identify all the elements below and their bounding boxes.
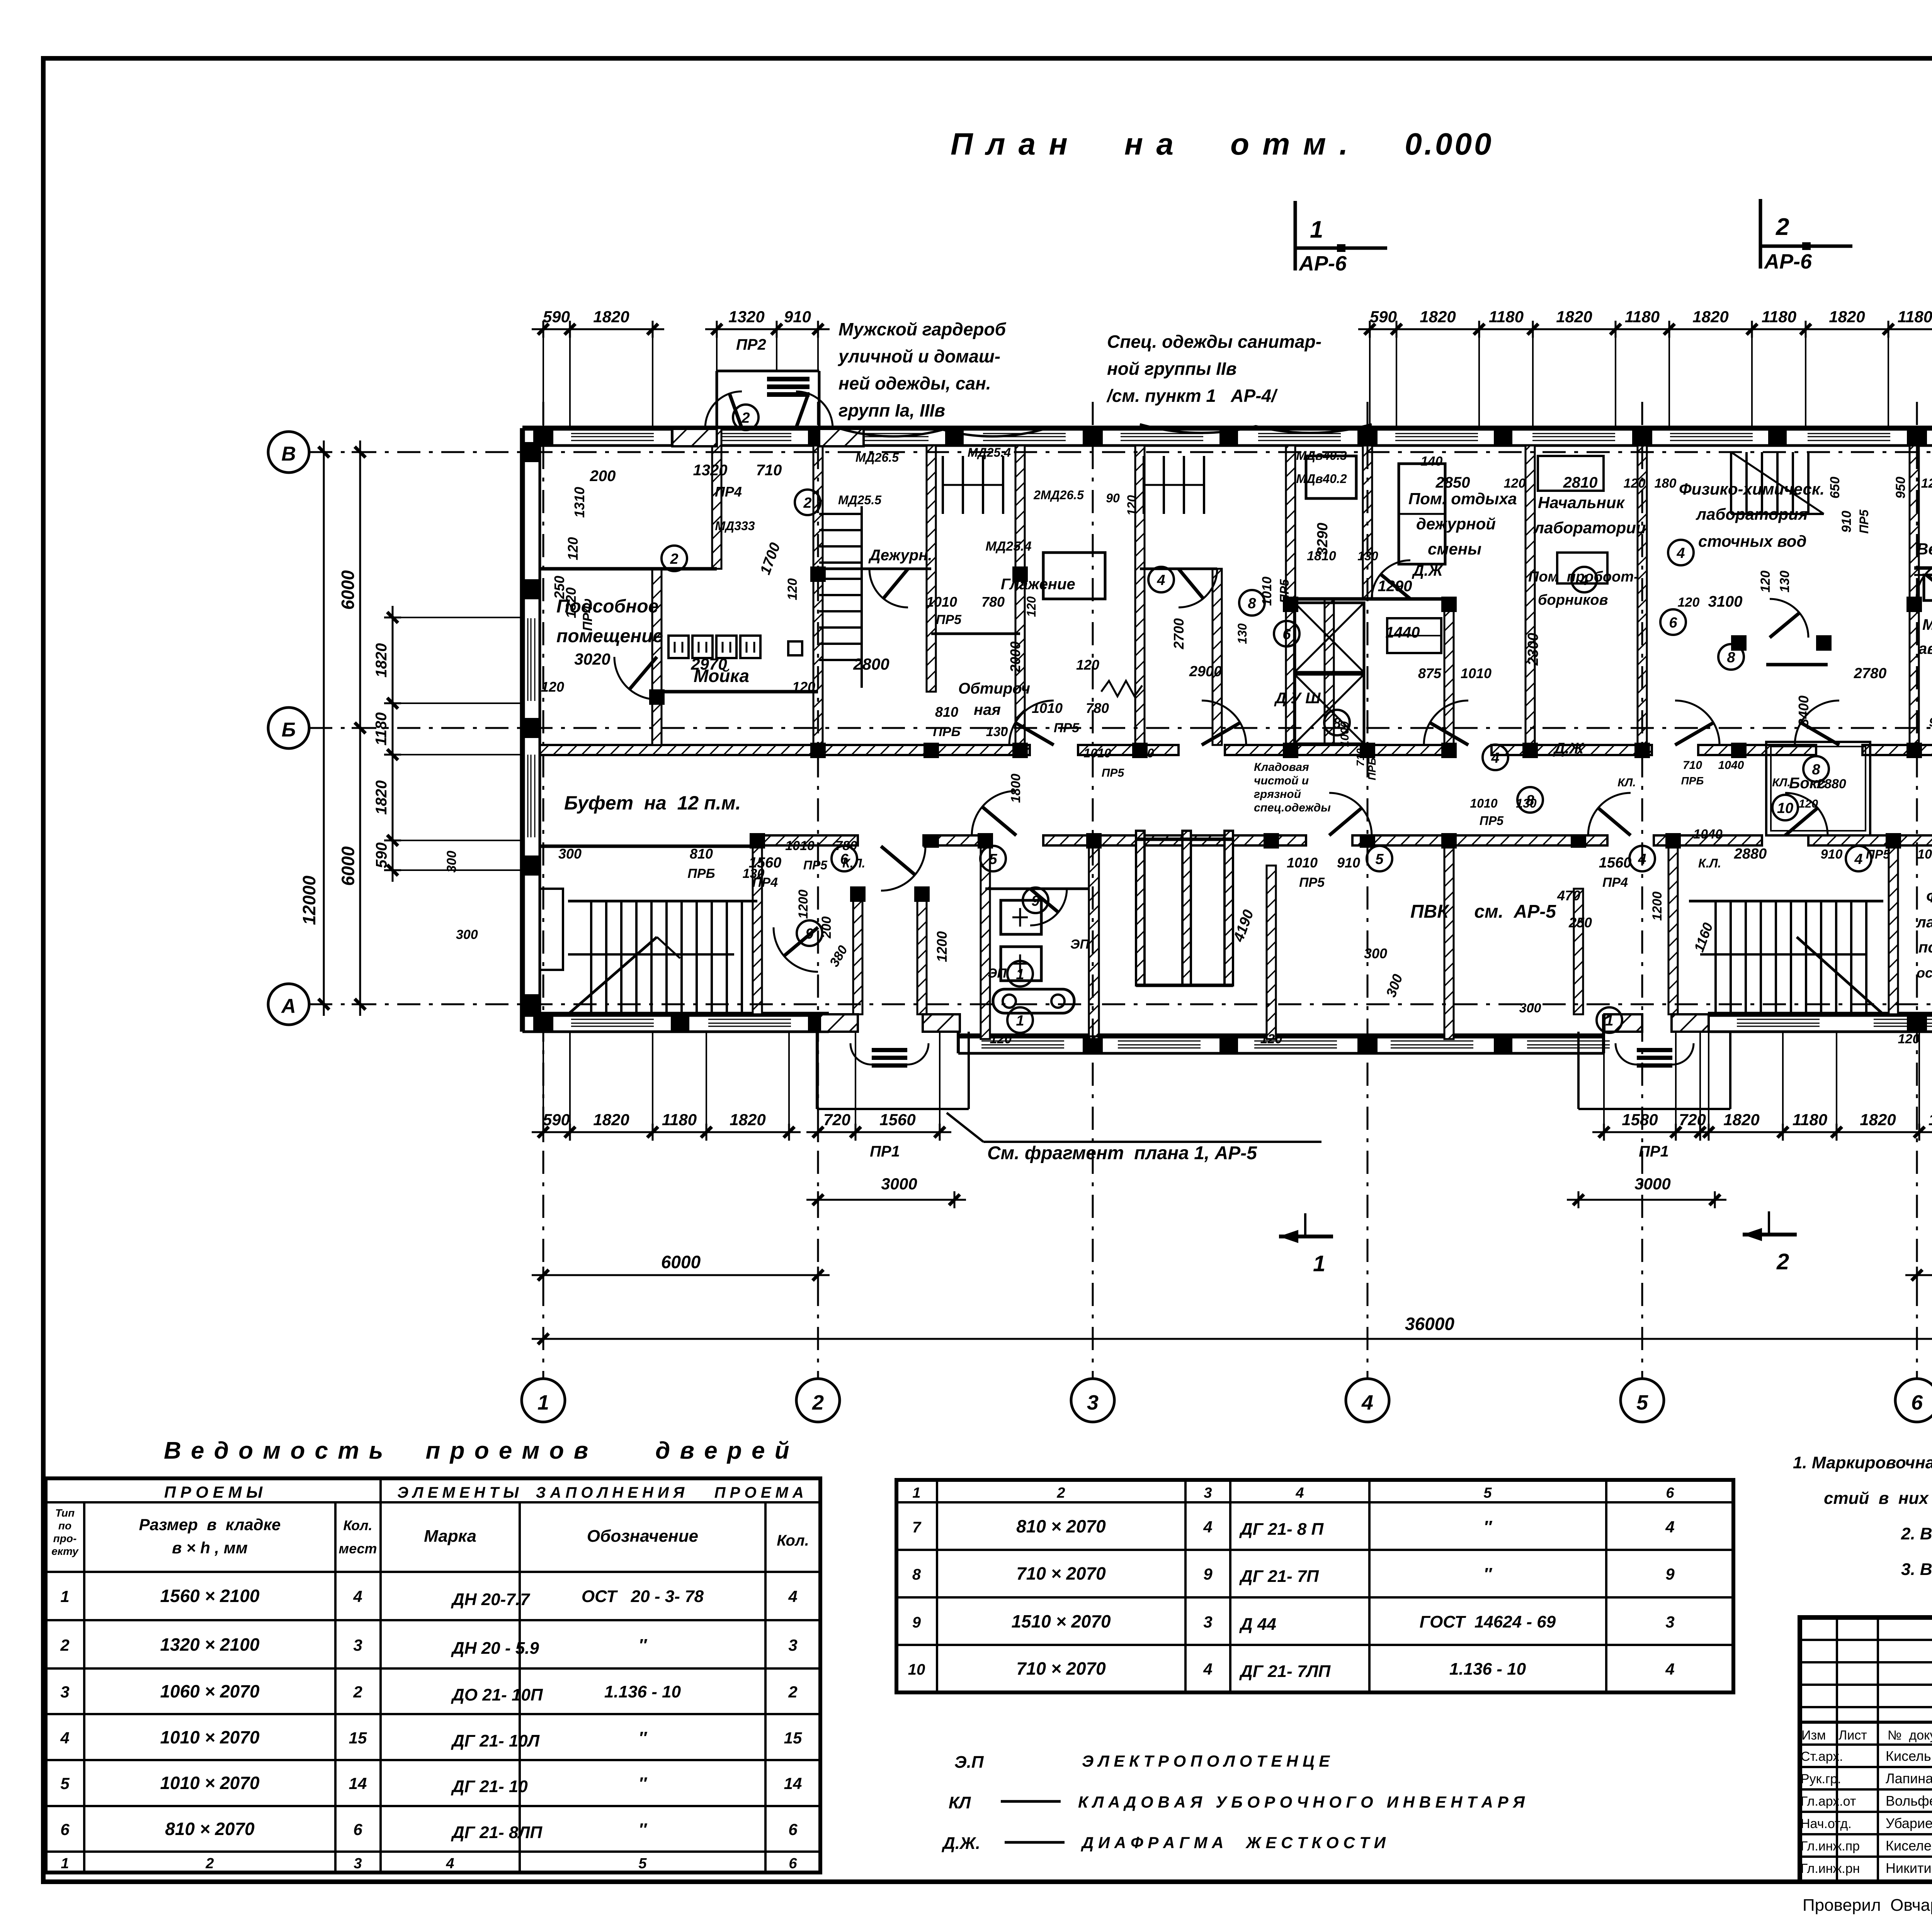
door schedule table 2	[896, 1480, 1733, 1692]
left staircase	[568, 900, 757, 903]
svg-text:дежурной: дежурной	[1416, 515, 1496, 533]
svg-text:8: 8	[1248, 595, 1256, 612]
svg-text:ПР5: ПР5	[1102, 767, 1125, 779]
svg-text:120: 120	[1799, 798, 1818, 810]
svg-text:К.Л.: К.Л.	[1698, 856, 1721, 870]
corridor walls	[540, 745, 1030, 755]
svg-text:ПРБ: ПРБ	[1366, 758, 1378, 781]
svg-text:4: 4	[1665, 1518, 1674, 1536]
svg-text:ЭП: ЭП	[1070, 937, 1090, 952]
svg-text:1820: 1820	[373, 643, 390, 678]
svg-text:КЛ.: КЛ.	[1772, 776, 1790, 789]
upper small stair (axis 2)	[819, 513, 862, 515]
svg-text:См. фрагмент плана 1, АР-5: См. фрагмент плана 1, АР-5	[987, 1143, 1257, 1163]
svg-text:910: 910	[1133, 746, 1154, 760]
svg-text:Э Л Е К Т Р О П О Л О Т Е Н Ц: Э Л Е К Т Р О П О Л О Т Е Н Ц Е	[1082, 1752, 1330, 1770]
svg-text:36000: 36000	[1405, 1314, 1454, 1334]
svg-text:2: 2	[60, 1636, 69, 1654]
svg-text:120: 120	[565, 537, 581, 560]
svg-text:130: 130	[986, 724, 1008, 739]
svg-text:120: 120	[1260, 1032, 1282, 1046]
svg-text:стий в них см. на листе: стий в них см. на листе ДР-9.	[1824, 1489, 1932, 1508]
svg-text:ПР5: ПР5	[1299, 875, 1325, 890]
svg-text:1010: 1010	[1470, 796, 1497, 810]
misc furniture	[1538, 456, 1604, 491]
svg-text:осадков сточ-: осадков сточ-	[1917, 965, 1932, 981]
svg-text:ПР1: ПР1	[1639, 1143, 1669, 1160]
svg-text:590: 590	[543, 1111, 570, 1129]
svg-text:Начальник: Начальник	[1538, 493, 1625, 512]
svg-text:90: 90	[1106, 491, 1120, 505]
svg-text:1820: 1820	[1420, 308, 1456, 326]
svg-text:ПР4: ПР4	[1602, 875, 1628, 890]
svg-text:1820: 1820	[593, 308, 629, 326]
svg-text:15: 15	[784, 1729, 802, 1747]
svg-text:910: 910	[1337, 855, 1360, 871]
svg-text:120: 120	[1624, 476, 1646, 491]
svg-text:910: 910	[784, 308, 811, 326]
exterior wall windows top	[571, 433, 654, 434]
svg-text:ПР1: ПР1	[870, 1143, 900, 1160]
svg-text:1820: 1820	[1860, 1111, 1896, 1129]
svg-text:3100: 3100	[1708, 593, 1743, 610]
svg-text:130: 130	[1777, 571, 1792, 593]
svg-text:АР-6: АР-6	[1298, 252, 1347, 275]
door swing arcs	[1015, 723, 1054, 745]
svg-text:5: 5	[1375, 851, 1384, 867]
svg-text:4: 4	[1665, 1660, 1674, 1678]
section cut 2 bottom	[1743, 1233, 1797, 1236]
svg-text:6: 6	[1282, 626, 1291, 643]
svg-text:590: 590	[373, 842, 390, 868]
svg-text:120: 120	[541, 679, 564, 695]
svg-text:Обозначение: Обозначение	[587, 1527, 698, 1546]
svg-text:2: 2	[1776, 214, 1789, 240]
svg-text:6: 6	[353, 1820, 362, 1838]
svg-text:МДв40.3: МДв40.3	[1296, 449, 1347, 463]
svg-text:3290: 3290	[1315, 523, 1331, 556]
svg-text:9: 9	[912, 1614, 921, 1631]
svg-text:чистой и: чистой и	[1254, 774, 1309, 787]
svg-text:Д.Ж: Д.Ж	[1553, 740, 1584, 757]
upper stair (axis 5-6 room)	[1730, 452, 1732, 514]
svg-text:8: 8	[1333, 715, 1341, 731]
svg-text:ЭП: ЭП	[988, 966, 1007, 981]
svg-text:300: 300	[558, 846, 582, 862]
interior partitions lower band	[753, 835, 762, 1014]
section mark 1/AP-6	[1294, 201, 1297, 270]
svg-text:Рук.гр.: Рук.гр.	[1801, 1772, 1841, 1786]
svg-text:2800: 2800	[853, 655, 889, 673]
svg-text:1320: 1320	[563, 587, 579, 618]
svg-text:120: 120	[1898, 1032, 1920, 1046]
svg-text:МД25.5: МД25.5	[838, 493, 882, 507]
svg-text:Гл.арх.от: Гл.арх.от	[1801, 1794, 1856, 1809]
svg-text:12000: 12000	[299, 876, 319, 925]
svg-text:1820: 1820	[1723, 1111, 1759, 1129]
svg-text:780: 780	[1086, 700, 1109, 716]
section mark 2/AP-6	[1759, 199, 1762, 269]
svg-text:Размер в кладке: Размер в кладке	[139, 1515, 281, 1534]
svg-text:2700: 2700	[1171, 618, 1187, 650]
svg-text:ПР4: ПР4	[580, 605, 595, 631]
bottom dimension chain right	[1689, 1131, 1932, 1133]
svg-text:910: 910	[1821, 847, 1843, 862]
svg-text:710: 710	[1354, 748, 1366, 766]
svg-text:6: 6	[840, 851, 849, 867]
6000 spans bottom	[532, 1274, 830, 1276]
svg-text:1180: 1180	[1898, 308, 1932, 326]
svg-text:1: 1	[61, 1855, 69, 1872]
top dimension chain right	[1358, 328, 1932, 330]
corridor door blobs extra	[923, 835, 939, 848]
svg-text:6: 6	[1911, 1391, 1923, 1414]
svg-text:2780: 2780	[1854, 665, 1887, 682]
svg-text:2880: 2880	[1816, 777, 1846, 791]
svg-text:1010: 1010	[1917, 847, 1932, 862]
svg-text:1580: 1580	[1622, 1111, 1658, 1129]
svg-text:1560 × 2100: 1560 × 2100	[160, 1586, 260, 1606]
svg-text:6: 6	[60, 1820, 70, 1838]
svg-text:130: 130	[1357, 549, 1378, 563]
svg-text:1180: 1180	[1489, 308, 1524, 326]
svg-text:МДв40.2: МДв40.2	[1296, 472, 1347, 486]
svg-text:710: 710	[1683, 759, 1702, 772]
svg-text:ной группы IIв: ной группы IIв	[1107, 359, 1236, 379]
svg-text:4: 4	[60, 1729, 69, 1747]
svg-text:ПР4: ПР4	[715, 484, 742, 500]
svg-text:5: 5	[60, 1774, 70, 1793]
svg-text:10: 10	[908, 1661, 925, 1678]
svg-text:590: 590	[1370, 308, 1397, 326]
svg-text:9: 9	[805, 926, 813, 942]
svg-text:3: 3	[1204, 1485, 1212, 1501]
svg-text:3000: 3000	[1634, 1175, 1670, 1193]
svg-text:5: 5	[989, 851, 997, 867]
svg-text:1180: 1180	[1793, 1111, 1827, 1129]
hatched piers at top vestibule	[672, 429, 717, 446]
svg-text:ДГ 21- 8ЛП: ДГ 21- 8ЛП	[451, 1823, 543, 1842]
svg-text:1820: 1820	[593, 1111, 629, 1129]
svg-text:Спец. одежды санитар-: Спец. одежды санитар-	[1107, 332, 1321, 352]
svg-text:9: 9	[1031, 893, 1039, 909]
svg-text:710 × 2070: 710 × 2070	[1016, 1563, 1106, 1583]
svg-text:6: 6	[788, 1820, 798, 1838]
svg-text:2: 2	[353, 1683, 362, 1701]
svg-text:Кол.: Кол.	[343, 1517, 372, 1533]
svg-text:″: ″	[638, 1774, 647, 1793]
svg-text:1060 × 2070: 1060 × 2070	[160, 1681, 260, 1701]
svg-text:сточных вод: сточных вод	[1698, 532, 1806, 550]
svg-text:1800: 1800	[1009, 774, 1023, 803]
svg-text:ДГ 21- 7П: ДГ 21- 7П	[1239, 1567, 1319, 1586]
svg-text:1320 × 2100: 1320 × 2100	[160, 1634, 260, 1655]
svg-text:Д И А Ф Р А Г М А Ж Е С Т: Д И А Ф Р А Г М А Ж Е С Т К О С Т И	[1081, 1833, 1386, 1852]
svg-text:470: 470	[1557, 888, 1580, 903]
svg-text:2880: 2880	[1734, 846, 1767, 862]
svg-text:Лапина: Лапина	[1886, 1770, 1932, 1786]
svg-text:1. Маркировочная схема сборн: 1. Маркировочная схема сборных и стеклоб…	[1793, 1453, 1932, 1472]
svg-text:720: 720	[823, 1111, 850, 1129]
svg-text:2900: 2900	[1189, 663, 1222, 680]
svg-text:3: 3	[1203, 1613, 1212, 1631]
svg-text:120: 120	[1678, 595, 1700, 610]
svg-text:120: 120	[1504, 476, 1526, 491]
svg-text:ПРБ: ПРБ	[933, 724, 960, 739]
axis grid lines	[543, 402, 544, 1379]
top entry vestibule (porch above axis 2)	[716, 371, 718, 428]
svg-text:в × h , мм: в × h , мм	[172, 1539, 248, 1557]
svg-text:810: 810	[690, 846, 713, 862]
svg-text:3: 3	[1087, 1391, 1099, 1414]
svg-text:650: 650	[1828, 477, 1842, 499]
svg-text:1010 × 2070: 1010 × 2070	[160, 1727, 260, 1747]
svg-text:1290: 1290	[1378, 578, 1412, 595]
circled door numbers	[832, 846, 857, 871]
svg-text:Гл.инж.рн: Гл.инж.рн	[1801, 1861, 1860, 1876]
axis 3 hatched wall	[1089, 835, 1099, 1036]
svg-text:МД333: МД333	[715, 519, 755, 533]
svg-text:/см. пункт 1 АР-4/: /см. пункт 1 АР-4/	[1106, 386, 1278, 406]
svg-text:3: 3	[60, 1683, 69, 1701]
svg-text:6: 6	[789, 1855, 797, 1872]
svg-text:Киселева: Киселева	[1886, 1838, 1932, 1854]
svg-text:1320: 1320	[728, 308, 764, 326]
svg-text:ПР5: ПР5	[936, 612, 962, 627]
svg-text:ПР2: ПР2	[736, 336, 766, 353]
svg-text:Проверил Овчаренко: Проверил Овчаренко	[1803, 1896, 1932, 1915]
svg-text:120: 120	[990, 1032, 1012, 1046]
svg-text:780: 780	[981, 594, 1005, 610]
svg-text:1010: 1010	[926, 594, 957, 610]
svg-text:грязной: грязной	[1254, 788, 1301, 801]
svg-text:4: 4	[1295, 1485, 1304, 1501]
svg-text:8: 8	[912, 1566, 921, 1583]
svg-text:Физ. хим.: Физ. хим.	[1926, 889, 1932, 906]
svg-text:ПР5: ПР5	[1480, 814, 1504, 828]
svg-text:1: 1	[1016, 966, 1024, 983]
svg-text:Дежурн.: Дежурн.	[868, 547, 932, 564]
svg-text:по: по	[58, 1520, 71, 1532]
svg-text:Убариев: Убариев	[1886, 1815, 1932, 1831]
svg-text:2: 2	[741, 410, 750, 426]
svg-text:ОСТ 20 - 3- 78: ОСТ 20 - 3- 78	[582, 1587, 704, 1606]
svg-text:ДГ 21- 8 П: ДГ 21- 8 П	[1239, 1520, 1324, 1539]
36000 span	[532, 1338, 1932, 1340]
svg-text:590: 590	[543, 308, 570, 326]
svg-text:2: 2	[205, 1855, 214, 1872]
svg-text:про-: про-	[53, 1532, 77, 1544]
junction blobs	[810, 743, 826, 758]
bottom porch chain right	[1592, 1131, 1720, 1133]
svg-text:2810: 2810	[1563, 474, 1598, 491]
svg-text:МД25.4: МД25.4	[968, 446, 1011, 459]
svg-text:Э.П: Э.П	[954, 1753, 984, 1772]
svg-text:1: 1	[1016, 1013, 1024, 1029]
svg-text:1440: 1440	[1386, 624, 1420, 641]
svg-text:1820: 1820	[730, 1111, 765, 1129]
svg-text:4: 4	[1854, 851, 1862, 867]
svg-text:140: 140	[1421, 454, 1443, 469]
svg-text:ПР5: ПР5	[1857, 509, 1871, 534]
wardrobe rows (axis 2-3)	[942, 456, 944, 514]
svg-text:1200: 1200	[1650, 891, 1665, 921]
svg-text:120: 120	[1758, 571, 1773, 593]
svg-text:1040: 1040	[1693, 827, 1723, 842]
svg-text:Вольфензон: Вольфензон	[1886, 1793, 1932, 1809]
svg-text:2: 2	[812, 1391, 824, 1414]
svg-text:10: 10	[1777, 800, 1793, 816]
right staircase	[1689, 900, 1883, 903]
svg-text:300: 300	[456, 927, 478, 942]
svg-text:″: ″	[1483, 1517, 1492, 1536]
svg-text:4: 4	[1156, 572, 1165, 588]
svg-text:4: 4	[446, 1855, 454, 1872]
svg-text:спец.одежды: спец.одежды	[1254, 801, 1331, 814]
svg-text:лаборатория: лаборатория	[1696, 505, 1808, 523]
svg-text:2: 2	[1776, 1249, 1789, 1274]
svg-text:Э Л Е М Е Н Т Ы З А П О Л Н: Э Л Е М Е Н Т Ы З А П О Л Н Е Н И Я П Р …	[397, 1484, 804, 1501]
svg-text:Никитин: Никитин	[1886, 1860, 1932, 1876]
svg-text:Нач.отд.: Нач.отд.	[1801, 1816, 1852, 1831]
svg-text:Изм: Изм	[1801, 1728, 1826, 1743]
svg-text:1560: 1560	[1599, 855, 1632, 871]
svg-text:14: 14	[349, 1774, 367, 1793]
bench rects upper rooms	[1399, 464, 1445, 564]
svg-text:1560: 1560	[879, 1111, 915, 1129]
svg-text:130: 130	[743, 866, 765, 881]
interior partitions upper band	[652, 569, 662, 745]
svg-text:300: 300	[1364, 946, 1387, 961]
svg-text:300: 300	[1519, 1001, 1541, 1015]
svg-text:4: 4	[788, 1587, 797, 1605]
svg-text:1820: 1820	[1692, 308, 1728, 326]
exterior wall windows bottom	[571, 1019, 654, 1020]
svg-text:2. Ведомость перемычек см.: 2. Ведомость перемычек см. на листе ДР-2…	[1901, 1524, 1932, 1543]
door schedule table	[46, 1478, 820, 1872]
svg-text:6000: 6000	[338, 570, 358, 610]
svg-text:Обтироч: Обтироч	[958, 680, 1030, 697]
svg-text:лаборатории: лаборатории	[1533, 519, 1646, 537]
axis circles left	[268, 432, 309, 473]
svg-text:АР-6: АР-6	[1764, 250, 1812, 273]
svg-text:Марка: Марка	[424, 1527, 476, 1546]
svg-text:720: 720	[1679, 1111, 1706, 1129]
moyka basins	[668, 636, 689, 658]
svg-text:Физико-химическ.: Физико-химическ.	[1679, 480, 1825, 498]
svg-text:групп Iа, IIIв: групп Iа, IIIв	[838, 400, 945, 420]
svg-text:КЛ: КЛ	[949, 1793, 971, 1812]
svg-text:ПР5: ПР5	[1277, 579, 1291, 603]
svg-text:1010: 1010	[1032, 700, 1063, 716]
svg-text:8: 8	[1526, 793, 1534, 809]
svg-text:5: 5	[1636, 1391, 1648, 1414]
svg-text:ПРБ: ПРБ	[687, 866, 715, 881]
svg-text:1010: 1010	[1083, 746, 1111, 760]
svg-text:1.136 - 10: 1.136 - 10	[604, 1682, 681, 1701]
svg-text:1010: 1010	[785, 838, 815, 853]
svg-text:200: 200	[590, 468, 616, 485]
svg-text:1180: 1180	[1762, 308, 1796, 326]
svg-text:1820: 1820	[373, 781, 390, 815]
svg-text:″: ″	[1483, 1565, 1492, 1583]
svg-text:120: 120	[1024, 596, 1038, 617]
bottom entrance porches	[820, 1014, 858, 1032]
svg-text:1: 1	[912, 1485, 920, 1501]
svg-text:4: 4	[353, 1587, 362, 1605]
svg-text:2000: 2000	[1007, 641, 1023, 673]
svg-text:6: 6	[1669, 615, 1677, 631]
svg-text:2: 2	[1056, 1485, 1065, 1501]
svg-text:90: 90	[1929, 715, 1932, 729]
svg-text:1180: 1180	[373, 712, 390, 745]
svg-text:1040: 1040	[1718, 759, 1744, 772]
svg-text:Гл.инж.пр: Гл.инж.пр	[1801, 1839, 1860, 1854]
svg-text:борников: борников	[1538, 592, 1608, 608]
svg-text:Кладовая: Кладовая	[1254, 761, 1309, 774]
svg-text:4: 4	[1676, 545, 1685, 561]
svg-text:1: 1	[1310, 216, 1323, 243]
svg-text:ней одежды, сан.: ней одежды, сан.	[838, 373, 991, 393]
svg-text:ДН 20-7.7: ДН 20-7.7	[451, 1590, 531, 1609]
svg-text:ГОСТ 14624 - 69: ГОСТ 14624 - 69	[1420, 1612, 1556, 1631]
svg-text:Б: Б	[282, 719, 296, 741]
svg-text:710 × 2070: 710 × 2070	[1016, 1658, 1106, 1679]
svg-text:МД25.4: МД25.4	[985, 539, 1031, 554]
svg-text:2: 2	[788, 1683, 797, 1701]
svg-text:810: 810	[935, 704, 958, 720]
svg-text:3: 3	[788, 1636, 797, 1654]
svg-text:1820: 1820	[1829, 308, 1865, 326]
bottom dimension chain left	[532, 1131, 801, 1133]
svg-text:1010 × 2070: 1010 × 2070	[160, 1773, 260, 1793]
svg-text:3400: 3400	[1796, 696, 1811, 726]
svg-text:1: 1	[60, 1587, 69, 1605]
svg-text:екту: екту	[51, 1545, 79, 1557]
svg-text:4: 4	[1638, 851, 1646, 867]
svg-text:Д У Ш: Д У Ш	[1274, 690, 1321, 707]
svg-text:1310: 1310	[571, 487, 587, 518]
svg-text:Кол.: Кол.	[777, 1532, 809, 1549]
svg-text:Мужской гардероб: Мужской гардероб	[838, 319, 1007, 339]
svg-text:МД26.5: МД26.5	[855, 451, 899, 464]
bottom porch chain left	[806, 1131, 951, 1133]
building exterior walls	[522, 426, 1932, 431]
svg-text:2: 2	[670, 551, 678, 567]
svg-text:1510 × 2070: 1510 × 2070	[1011, 1611, 1111, 1631]
svg-text:6000: 6000	[661, 1252, 701, 1272]
svg-text:2970: 2970	[690, 655, 727, 673]
svg-text:3: 3	[354, 1855, 362, 1872]
svg-text:15: 15	[349, 1729, 367, 1747]
svg-text:Буфет на 12 п.м.: Буфет на 12 п.м.	[564, 792, 741, 814]
svg-text:П Р О Е М Ы: П Р О Е М Ы	[164, 1483, 263, 1501]
svg-text:Тип: Тип	[55, 1507, 75, 1519]
svg-text:3: 3	[1665, 1613, 1674, 1631]
svg-text:4: 4	[1491, 750, 1499, 766]
WC fixtures	[1001, 900, 1041, 934]
svg-text:120: 120	[1076, 657, 1099, 673]
svg-text:120: 120	[1125, 495, 1139, 516]
svg-text:5: 5	[1483, 1485, 1492, 1501]
top chain PR2	[705, 328, 830, 330]
svg-text:Пом. отдыха: Пом. отдыха	[1408, 490, 1517, 508]
svg-text:1820: 1820	[1556, 308, 1592, 326]
svg-text:1180: 1180	[662, 1111, 697, 1129]
svg-text:ДО 21- 10П: ДО 21- 10П	[451, 1685, 543, 1704]
svg-text:4: 4	[1203, 1660, 1212, 1678]
svg-text:9: 9	[1203, 1565, 1213, 1583]
